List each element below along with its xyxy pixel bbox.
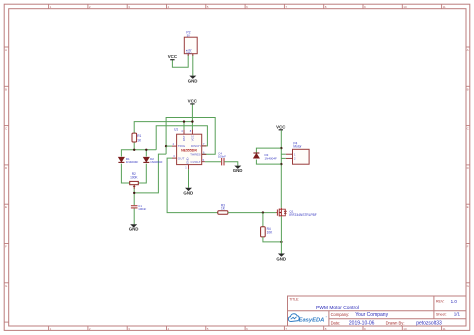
wire C4 to GND bbox=[224, 162, 237, 166]
svg-text:RST: RST bbox=[182, 135, 186, 141]
svg-text:GND: GND bbox=[129, 227, 139, 232]
svg-text:petozsolt33: petozsolt33 bbox=[416, 320, 442, 326]
svg-text:100nF: 100nF bbox=[218, 154, 226, 158]
node dots on rail bbox=[133, 149, 135, 151]
svg-text:1N4004F: 1N4004F bbox=[126, 160, 139, 164]
wire TRIG pin bbox=[166, 145, 172, 147]
svg-text:100nF: 100nF bbox=[138, 207, 146, 211]
svg-text:TITLE:: TITLE: bbox=[289, 297, 299, 301]
svg-text:THRES: THRES bbox=[190, 153, 201, 157]
ground GND (below C1) bbox=[129, 224, 139, 231]
svg-text:GND: GND bbox=[186, 51, 192, 54]
svg-text:10: 10 bbox=[403, 5, 407, 9]
wire pin8 stub bbox=[191, 122, 193, 130]
svg-text:IRFZ44NSTRLPBF: IRFZ44NSTRLPBF bbox=[289, 213, 316, 217]
svg-text:11: 11 bbox=[443, 5, 446, 9]
svg-text:Sheet:: Sheet: bbox=[436, 312, 447, 316]
svg-text:VCC: VCC bbox=[188, 99, 198, 104]
wire R3 to gate bbox=[228, 212, 277, 214]
wire motor pin1 bbox=[281, 153, 286, 155]
svg-text:GND: GND bbox=[233, 168, 243, 173]
wire R1 bottom leg bbox=[133, 142, 135, 150]
wire trig jog to wiper net bbox=[134, 154, 166, 193]
node dot wiper bbox=[133, 192, 135, 194]
wire P2 pin2 to GND bbox=[192, 55, 194, 76]
wire OUT to R3 bbox=[167, 158, 218, 213]
svg-text:A: A bbox=[5, 48, 7, 52]
svg-text:10: 10 bbox=[403, 327, 407, 331]
svg-text:GND: GND bbox=[188, 79, 198, 84]
ground GND (below Q1) bbox=[276, 254, 286, 262]
svg-text:E: E bbox=[5, 205, 7, 209]
svg-text:GND: GND bbox=[183, 190, 193, 195]
svg-text:U1: U1 bbox=[174, 127, 178, 131]
svg-text:10K: 10K bbox=[267, 230, 274, 234]
wire pin4 stub bbox=[183, 122, 185, 130]
svg-text:1N4004F: 1N4004F bbox=[265, 157, 278, 161]
svg-text:E: E bbox=[467, 205, 469, 209]
ground GND (right of C4) bbox=[233, 166, 243, 174]
wire R1 bottom rail bbox=[121, 150, 156, 157]
wire CVOLT to C4 bbox=[205, 161, 221, 163]
EasyEDA logo bbox=[288, 314, 327, 324]
wire R4 bottom to source bbox=[263, 237, 282, 242]
svg-text:Date:: Date: bbox=[331, 320, 341, 325]
svg-text:EasyEDA: EasyEDA bbox=[299, 317, 325, 323]
resistor R3 bbox=[218, 203, 228, 214]
IC U1 NE555DR 555 timer bbox=[172, 127, 206, 169]
node dot gate/R4 bbox=[262, 211, 264, 213]
diode D2 bbox=[143, 157, 162, 164]
svg-text:Company:: Company: bbox=[331, 312, 350, 317]
ground GND (below U1) bbox=[183, 188, 193, 196]
transistor Q1 IRFZ44N bbox=[276, 208, 316, 217]
node dot TRIG bbox=[165, 145, 167, 147]
svg-text:R1: R1 bbox=[137, 134, 141, 138]
resistor R1 bbox=[132, 133, 142, 142]
ground GND (below P2) bbox=[188, 76, 198, 84]
svg-text:VCC: VCC bbox=[190, 135, 194, 141]
svg-text:PWM Motor Control: PWM Motor Control bbox=[316, 305, 359, 311]
svg-text:F: F bbox=[467, 245, 469, 249]
svg-text:VCC: VCC bbox=[276, 124, 286, 129]
power flag VCC (left of P2) bbox=[168, 54, 178, 60]
svg-text:1.0: 1.0 bbox=[451, 299, 458, 304]
wire D2 top leg bbox=[145, 150, 147, 157]
title block bbox=[288, 296, 467, 326]
node dot source/R4 bbox=[280, 241, 282, 243]
connector P2 bbox=[184, 31, 197, 56]
wire VCC stub to P2 bbox=[172, 55, 188, 68]
wire TRIG-THRES loop (line1) bbox=[166, 118, 215, 155]
svg-text:11: 11 bbox=[443, 327, 446, 331]
svg-text:B: B bbox=[467, 87, 469, 91]
svg-text:100K: 100K bbox=[130, 175, 138, 179]
wire GND pin 1 bbox=[188, 169, 190, 187]
wire vcc rail to R1 top bbox=[134, 122, 192, 134]
svg-text:2019-10-06: 2019-10-06 bbox=[349, 320, 375, 326]
svg-text:A: A bbox=[467, 48, 469, 52]
wire D2 bottom to pot bbox=[138, 164, 146, 183]
svg-text:F: F bbox=[5, 245, 7, 249]
diode D1 bbox=[118, 157, 138, 164]
svg-text:Your Company: Your Company bbox=[355, 312, 388, 318]
svg-text:OUT: OUT bbox=[178, 156, 185, 160]
svg-text:1/1: 1/1 bbox=[454, 312, 461, 317]
svg-text:NE555DR: NE555DR bbox=[181, 148, 197, 152]
wire gate node down to R4 bbox=[262, 213, 264, 227]
svg-text:Motor: Motor bbox=[293, 145, 302, 149]
svg-text:5V: 5V bbox=[187, 34, 190, 37]
svg-text:CVOLT: CVOLT bbox=[191, 160, 201, 164]
svg-text:VCC: VCC bbox=[168, 54, 178, 59]
capacitor C1 bbox=[131, 204, 147, 211]
node dots on vcc rail bbox=[183, 120, 185, 122]
wire D1 bottom to pot bbox=[121, 164, 129, 183]
svg-text:GND: GND bbox=[185, 157, 189, 163]
svg-text:GND: GND bbox=[276, 257, 286, 262]
wire motor pin2 bbox=[281, 157, 286, 159]
power flag VCC (motor) bbox=[276, 124, 286, 130]
diode D3 bbox=[253, 153, 277, 161]
wire VCC down through motor to drain bbox=[280, 130, 282, 208]
connector P4 Motor bbox=[286, 142, 309, 165]
potentiometer R2 bbox=[130, 172, 139, 189]
svg-text:Drawn By:: Drawn By: bbox=[386, 320, 405, 325]
wire wiper down to C1 and GND bbox=[133, 185, 135, 206]
svg-text:B: B bbox=[5, 87, 7, 91]
svg-text:REV:: REV: bbox=[436, 300, 444, 304]
wire DISCH loop (line3) bbox=[156, 126, 207, 150]
power flag VCC (top middle) bbox=[188, 99, 198, 105]
wire source to GND bbox=[280, 216, 282, 253]
wire VCC down to rail bbox=[191, 105, 193, 122]
resistor R4 bbox=[261, 227, 274, 237]
node dots motor net bbox=[280, 147, 282, 149]
wire D3 branch bbox=[256, 148, 281, 153]
svg-text:1N4004F: 1N4004F bbox=[150, 160, 163, 164]
capacitor C4 bbox=[218, 152, 226, 166]
